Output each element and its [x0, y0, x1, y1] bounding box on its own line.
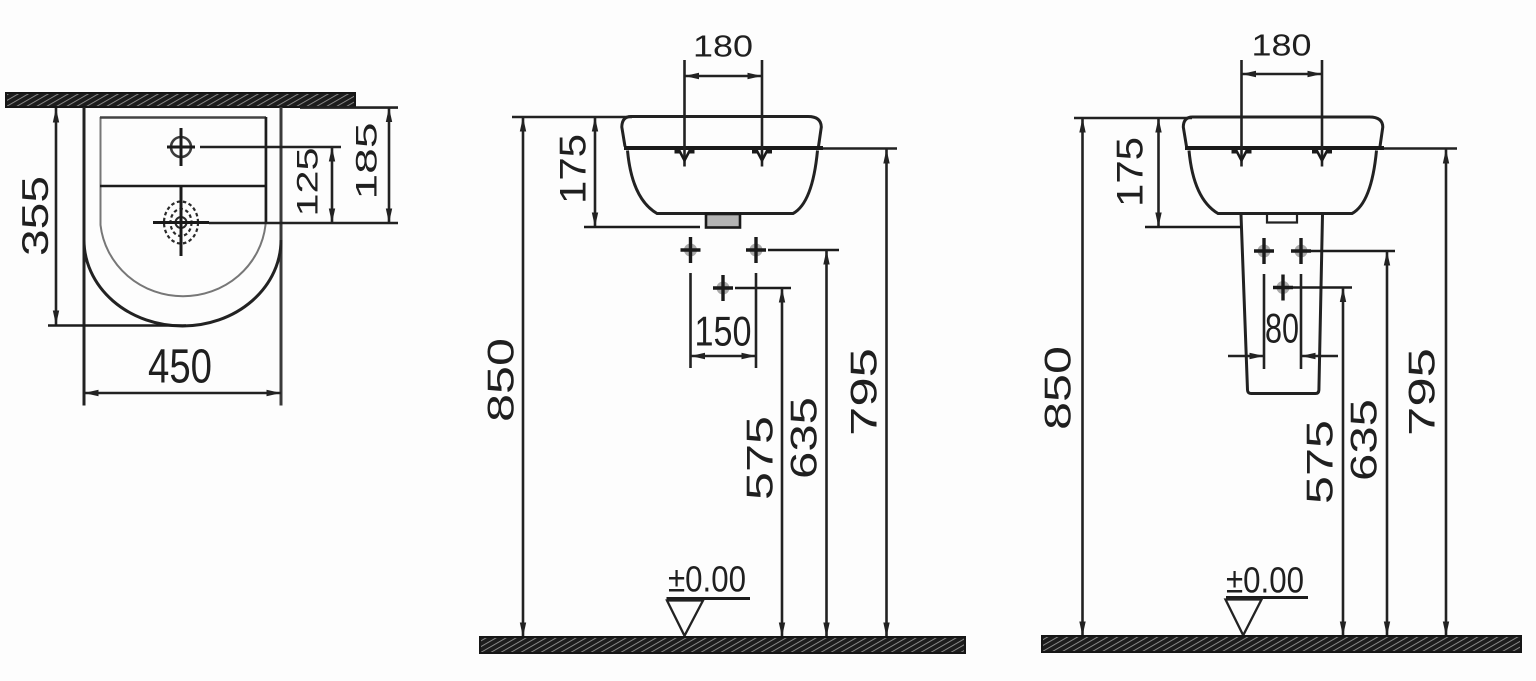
dimension 175 [1157, 118, 1160, 227]
rim reference line to 795 [1384, 147, 1457, 150]
svg-text:850: 850 [1038, 346, 1079, 430]
dimension 635 [825, 250, 828, 637]
575 reference line [1293, 286, 1352, 289]
faucet hole [171, 137, 191, 157]
svg-text:180: 180 [693, 29, 753, 64]
svg-text:575: 575 [1300, 420, 1341, 504]
dimension 635 [1386, 251, 1389, 636]
fixing bolt left [1240, 60, 1243, 167]
faucet hole reference line [200, 146, 341, 149]
bowl outline [1189, 151, 1377, 214]
svg-text:450: 450 [148, 341, 212, 394]
basin outer right edge [280, 107, 283, 406]
dimension 180 [1242, 73, 1323, 76]
635 reference line [1311, 250, 1395, 253]
bowl outline [628, 151, 818, 214]
floor bar middle [480, 637, 965, 653]
basin outer left edge [83, 107, 86, 406]
dimension 575 [781, 288, 784, 637]
floor bar right [1042, 636, 1521, 652]
svg-text:150: 150 [695, 308, 752, 355]
dimension 450 [84, 392, 281, 395]
575 reference line [735, 287, 791, 290]
dimension 850 [1081, 118, 1084, 636]
dimension 180 [685, 75, 763, 78]
dimension 795 [885, 149, 888, 637]
svg-text:±0.00: ±0.00 [668, 559, 746, 600]
wall bottom reference line extended right [300, 106, 398, 109]
basin body outline [1183, 117, 1383, 147]
svg-text:180: 180 [1252, 28, 1312, 63]
svg-text:355: 355 [15, 176, 56, 256]
drain outlet box [706, 214, 740, 228]
svg-text:575: 575 [740, 416, 781, 500]
dimension 175 [594, 117, 597, 227]
svg-text:795: 795 [1402, 348, 1443, 436]
drain reference line [209, 222, 398, 225]
svg-text:795: 795 [844, 348, 885, 436]
fixing bolt right [1321, 60, 1324, 167]
drain hole [164, 202, 198, 244]
basin ledge line [100, 185, 266, 188]
svg-text:±0.00: ±0.00 [1226, 560, 1304, 601]
svg-text:80: 80 [1265, 305, 1299, 352]
rim reference line to 795 [823, 147, 897, 150]
dimension 80 [1263, 274, 1266, 369]
pedestal drain notch [1267, 214, 1297, 223]
pedestal [1241, 215, 1323, 394]
635 reference line [768, 249, 839, 252]
svg-text:850: 850 [481, 338, 522, 422]
mounting hole crosses [681, 237, 701, 263]
dimension 150 [689, 273, 692, 368]
basin rim line [1185, 146, 1384, 150]
basin inner top edge [100, 116, 266, 119]
svg-text:125: 125 [292, 148, 325, 217]
dimension 795 [1445, 149, 1448, 636]
dimension 185 [388, 108, 391, 224]
basin inner outline [101, 117, 266, 296]
fixing bolt right [761, 60, 764, 167]
svg-text:185: 185 [351, 123, 384, 200]
175 bottom reference line [1145, 226, 1241, 229]
mounting hole crosses [1254, 238, 1274, 264]
basin top reference line [1074, 117, 1192, 120]
wall section bar [6, 93, 355, 107]
svg-text:175: 175 [553, 134, 594, 204]
basin rim line [624, 146, 823, 150]
basin outer bottom arc [84, 240, 281, 326]
dimension 355 [55, 108, 58, 325]
dimension 125 [331, 147, 334, 223]
svg-text:635: 635 [1344, 399, 1385, 481]
svg-text:635: 635 [784, 397, 825, 479]
bottom tangent reference line [48, 324, 186, 327]
dimension 850 [522, 117, 525, 637]
basin body outline [622, 117, 822, 147]
175 bottom reference line [584, 226, 700, 229]
basin inner right vertical [265, 117, 268, 223]
dimension 575 [1342, 288, 1345, 637]
basin top reference line [512, 116, 632, 119]
fixing bolt left [683, 60, 686, 167]
svg-text:175: 175 [1110, 137, 1151, 207]
